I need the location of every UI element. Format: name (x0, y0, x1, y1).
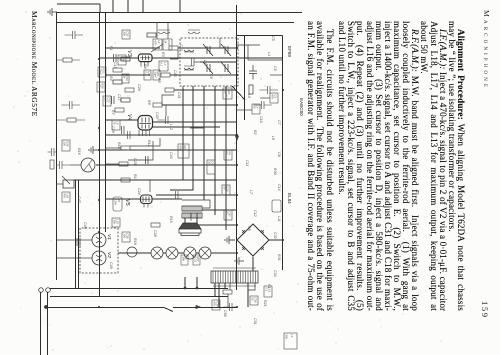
junction mains A (196, 287, 198, 289)
wire heater stub 2 (184, 277, 186, 288)
resistor R24 (113, 80, 122, 84)
resistor R2 (161, 73, 170, 77)
wire pot drop (57, 183, 63, 185)
wire heater links 2 (178, 252, 184, 254)
svg-text:C13: C13 (179, 44, 183, 51)
svg-text:0.1: 0.1 (264, 287, 268, 291)
wire V5 grid (149, 180, 151, 192)
wire branch x62 (200, 61, 237, 63)
svg-text:C20: C20 (137, 84, 141, 91)
svg-text:EF89: EF89 (287, 46, 292, 57)
valve V5 envelope (141, 195, 153, 204)
capacitor C8 (224, 303, 238, 311)
output transformer T2 primary (182, 206, 202, 211)
wire T2 primary top (182, 200, 210, 208)
svg-text:R13: R13 (133, 174, 137, 181)
svg-text:C49: C49 (109, 262, 113, 269)
wire gang top bus (244, 36, 246, 121)
capacitor C29 (77, 238, 80, 246)
wire branch x165 (96, 164, 237, 166)
mains terminal 1 (46, 288, 51, 293)
wire V3 to gang (151, 44, 163, 52)
svg-text:10pF: 10pF (153, 71, 157, 78)
label box C47 (62, 192, 70, 202)
wire det diode (165, 105, 167, 116)
valve V5 pins (144, 204, 148, 208)
wire mains lead 1 (47, 292, 49, 355)
wire V4 grid (190, 120, 204, 128)
svg-text:R4: R4 (109, 76, 113, 81)
wire branch x90 (174, 89, 237, 91)
resistor R9 (119, 162, 128, 166)
wire coupling low (106, 163, 119, 165)
heater lamp 3 (166, 247, 178, 259)
svg-text:R5: R5 (157, 78, 161, 83)
capacitor C28 (146, 156, 149, 164)
label box L8 (270, 93, 278, 103)
wire T1 secondary (247, 283, 249, 307)
label box C53 (223, 88, 232, 99)
wire V4 to V5 coupling (128, 141, 153, 160)
wire branch x48 low (106, 47, 160, 49)
wire osc coil link (162, 95, 174, 105)
wire T1 link A (224, 283, 226, 288)
wire top tie c (237, 44, 260, 46)
model caption (30, 11, 39, 211)
svg-text:33k: 33k (112, 219, 116, 224)
svg-text:50: 50 (250, 297, 254, 301)
resistor R1 (169, 46, 178, 50)
svg-text:C7: C7 (277, 120, 281, 126)
svg-text:V5: V5 (124, 199, 130, 207)
svg-text:C19: C19 (111, 126, 115, 133)
svg-text:R8: R8 (247, 226, 251, 231)
wire heater bus (80, 239, 92, 241)
wire branch x195 (156, 194, 237, 196)
coil L3 (158, 30, 170, 34)
label box C52 (122, 232, 130, 242)
coil L10 (184, 66, 194, 70)
label box L17 (159, 61, 168, 71)
wire L8 link (260, 97, 270, 99)
label box R14 (224, 150, 232, 160)
svg-text:0.01: 0.01 (193, 256, 197, 262)
wire bridge bottom (236, 239, 238, 241)
label box R16 (62, 140, 70, 151)
label box b2 (103, 96, 111, 106)
svg-text:C5: C5 (271, 36, 275, 41)
capacitor C7 (191, 213, 197, 221)
label box L18 top (284, 333, 297, 349)
svg-text:50: 50 (224, 151, 228, 155)
label box C46 (224, 210, 232, 220)
svg-text:L7: L7 (163, 62, 167, 66)
wire IFT tie 2 (156, 22, 158, 39)
label box C22 (144, 70, 151, 80)
capacitor C9 (57, 161, 71, 169)
junction dots top bus (282, 239, 284, 241)
label box pair a1 (98, 67, 106, 77)
wire V4 anode riser (153, 126, 221, 128)
wire mains lead 2 (40, 292, 42, 355)
bridge rectifier MR1 (237, 224, 269, 256)
wire bridge lower (229, 239, 235, 241)
wire left rail (57, 12, 303, 14)
svg-text:33k: 33k (207, 161, 211, 166)
lamp 1 cross (201, 249, 209, 257)
label box C16 (118, 55, 126, 65)
wire AGC rail (236, 5, 238, 290)
wire R29 drop (57, 119, 85, 121)
junction dots chassis rail (98, 58, 100, 60)
valve base dashed box (80, 228, 118, 273)
svg-text:R2: R2 (253, 130, 257, 135)
svg-text:EABC80: EABC80 (299, 98, 304, 116)
svg-text:R11: R11 (147, 140, 151, 146)
valve base B2 (92, 251, 106, 265)
wire heater column (211, 252, 237, 254)
svg-text:L1: L1 (267, 52, 271, 56)
wire top tie d (248, 45, 262, 60)
svg-text:50: 50 (222, 186, 226, 190)
svg-text:50: 50 (252, 105, 256, 109)
resistor R25 (121, 98, 130, 102)
svg-text:C43: C43 (155, 112, 159, 119)
svg-text:C14: C14 (277, 184, 281, 191)
capacitor C2 (254, 101, 273, 109)
lamp 4 cross (153, 249, 161, 257)
resistor R5 (125, 88, 134, 92)
svg-text:47k: 47k (97, 83, 101, 88)
wire edge rail low (57, 3, 100, 5)
T2 primary hatch (184, 206, 200, 211)
wire edge stub 4 (112, 0, 114, 12)
svg-text:50: 50 (112, 121, 116, 125)
wire edge stub 2 (142, 0, 144, 12)
resistor R11 (151, 223, 160, 227)
pilot lamp PL1 (127, 247, 137, 257)
svg-text:R1: R1 (109, 46, 113, 51)
label box b1 (122, 74, 129, 83)
wire mains lead A (50, 288, 228, 290)
wire mains lead B lower (50, 296, 172, 298)
svg-text:50: 50 (224, 211, 228, 215)
heater twin lead lower (75, 180, 77, 289)
label box PL1 (193, 255, 200, 265)
wire HT feed lower (47, 307, 164, 309)
resistor R28 (63, 58, 72, 62)
valve V5 electrodes (142, 197, 151, 203)
svg-text:100: 100 (62, 141, 66, 146)
resistor R3 (165, 88, 174, 92)
label box R19 (112, 218, 120, 227)
T1 core lines (213, 268, 256, 286)
capacitor C25 (114, 54, 117, 62)
wire bus drop (237, 35, 283, 37)
svg-text:R6: R6 (143, 64, 147, 69)
wire mains lead B upper (172, 296, 228, 298)
svg-text:47k: 47k (212, 301, 216, 306)
junction mains B (184, 287, 186, 289)
svg-text:C15: C15 (113, 62, 117, 69)
svg-text:R16: R16 (77, 148, 81, 155)
wire branch x210 (202, 209, 237, 211)
wire tie b (194, 61, 200, 63)
wire HT feed upper (173, 307, 237, 309)
svg-text:33k: 33k (181, 256, 185, 261)
label box C42 (207, 160, 215, 174)
junction dots rail y263 (236, 47, 238, 49)
ground left rail (48, 8, 57, 16)
svg-text:47k: 47k (153, 40, 157, 45)
svg-text:47k: 47k (178, 145, 182, 150)
svg-text:L4: L4 (203, 60, 207, 64)
wire branch x122 (153, 121, 238, 123)
svg-text:V1: V1 (106, 234, 112, 240)
valve V3 pins (141, 62, 148, 67)
svg-text:R4: R4 (117, 198, 121, 202)
lamp 3 cross (168, 249, 176, 257)
wire fuse link (227, 294, 229, 307)
svg-text:0.1: 0.1 (144, 71, 148, 75)
svg-text:C9: C9 (209, 74, 213, 79)
valve V4 pins (139, 130, 150, 136)
svg-text:R10: R10 (117, 142, 121, 149)
svg-text:33k: 33k (284, 334, 288, 339)
wire branch x75 low (106, 74, 150, 76)
resistor R8 (121, 146, 130, 150)
wire V3 cathode (100, 57, 139, 59)
svg-text:R27: R27 (227, 89, 231, 95)
resistor R6 (113, 68, 122, 72)
svg-text:2.2M: 2.2M (113, 197, 117, 205)
ground near bridge (225, 236, 235, 244)
svg-text:R18: R18 (133, 238, 137, 245)
valve base B1 (92, 233, 106, 247)
resistor R33 (50, 160, 54, 169)
label box PL2 (181, 255, 188, 265)
svg-text:C41: C41 (177, 92, 181, 99)
svg-text:V3: V3 (126, 50, 132, 57)
svg-text:C10: C10 (259, 116, 263, 123)
label box L14/C44 (153, 39, 162, 50)
resistor R27 (249, 85, 253, 94)
alignment procedure text block (306, 21, 465, 311)
wire branch x225 (197, 224, 237, 226)
svg-text:47k: 47k (62, 193, 66, 198)
capacitor C36 (65, 31, 84, 39)
svg-text:R21: R21 (263, 300, 267, 307)
wave switch S1 (81, 158, 95, 172)
output transformer T2 secondary (182, 213, 202, 218)
wire heater links (196, 252, 199, 254)
wire V4 cathode (106, 119, 139, 121)
label box L13/C40 (163, 39, 172, 50)
wire top bus (282, 36, 284, 271)
svg-text:C12: C12 (253, 210, 257, 217)
svg-text:C23: C23 (133, 158, 137, 165)
capacitor C26 (112, 96, 115, 104)
ground bridge-side (235, 257, 244, 265)
svg-text:100: 100 (118, 56, 122, 61)
svg-text:L4: L4 (290, 334, 294, 338)
resistor R29 (67, 118, 76, 122)
resistor R10 (121, 178, 130, 182)
base B2 heater (96, 255, 102, 261)
wire edge stub 3 (127, 0, 129, 12)
label box C21 (153, 70, 160, 80)
resistor R12 (223, 290, 232, 294)
label box R20 (112, 120, 120, 130)
svg-text:C47: C47 (77, 196, 81, 204)
label box mains rect (113, 197, 122, 211)
capacitor C5 (120, 131, 139, 139)
svg-text:C17: C17 (117, 94, 121, 102)
valve V4 envelope (138, 116, 153, 131)
HT switch lever (164, 308, 173, 312)
label box C50 (212, 300, 220, 310)
svg-text:L9: L9 (271, 136, 275, 140)
heater lamp 4 (151, 247, 163, 259)
wire heater links 4 (118, 252, 151, 254)
volume control R17 (63, 180, 74, 188)
svg-text:L6: L6 (247, 94, 251, 98)
wire screen resistor drop (106, 147, 121, 149)
label box R2 tag (122, 30, 130, 39)
wire grid link V3 (170, 50, 178, 59)
switch contacts (84, 160, 92, 170)
svg-text:R7: R7 (111, 110, 115, 116)
wire branch x180 (74, 179, 237, 181)
wire IFT tie (167, 22, 169, 39)
svg-text:L11: L11 (277, 216, 281, 222)
wire T1 primary tap (248, 283, 255, 290)
coil L2 (188, 30, 200, 34)
wire heater bus 2 (80, 257, 92, 259)
wire anode load (121, 179, 130, 181)
svg-text:C34: C34 (273, 270, 277, 277)
lamp 2 cross (186, 249, 194, 257)
svg-text:R10: R10 (167, 40, 171, 46)
capacitor C4 (158, 116, 169, 124)
wire V3 grid riser (152, 57, 283, 59)
svg-text:V2: V2 (106, 252, 112, 258)
capacitor C37 (62, 101, 81, 109)
running header MARCONIPHONE (482, 10, 491, 349)
label box metal rectifier tag (272, 200, 281, 212)
svg-text:100: 100 (122, 233, 126, 238)
svg-text:C24: C24 (137, 188, 141, 195)
svg-text:R3: R3 (161, 52, 165, 57)
wire branch x75 (170, 74, 237, 76)
resistor R7 (115, 108, 124, 112)
svg-text:R9: R9 (147, 100, 151, 105)
valve V3 envelope (138, 54, 152, 62)
trimmer C48 (203, 62, 213, 74)
coil L16 (184, 48, 194, 52)
wire gang bus 1 (225, 86, 227, 230)
svg-text:R15: R15 (169, 216, 173, 223)
svg-text:C40: C40 (173, 70, 177, 77)
wire diag link (232, 86, 245, 100)
wire lower bus (56, 13, 58, 281)
wire branch x150 (99, 149, 237, 151)
wire base box drop 2 (57, 257, 80, 259)
svg-text:10pF: 10pF (98, 68, 102, 75)
label box L5 (252, 104, 260, 114)
wire tie a (219, 38, 221, 48)
heater lamp 1 (199, 247, 211, 259)
trimmer C18 (221, 44, 231, 56)
label box pair a2 (97, 82, 105, 92)
wire bridge top (269, 239, 283, 241)
label box C39 (178, 144, 189, 158)
label box R22 (250, 296, 258, 305)
svg-text:L4: L4 (157, 40, 161, 44)
scan speckle field (292, 225, 295, 228)
wire T1 link B (214, 283, 216, 296)
wire edge rail link (99, 4, 101, 12)
T1 windings (213, 271, 256, 283)
wire heater stub 1 (196, 277, 198, 288)
svg-text:C11: C11 (245, 160, 249, 166)
wire top comp a (270, 74, 283, 76)
svg-text:47k: 47k (270, 94, 274, 99)
loudspeaker (179, 223, 201, 229)
page number 159 (480, 301, 490, 319)
svg-text:L12: L12 (169, 124, 173, 130)
speaker frame (179, 229, 201, 236)
svg-text:EL84: EL84 (287, 193, 292, 204)
svg-text:L7: L7 (249, 190, 253, 195)
svg-text:100: 100 (223, 89, 227, 94)
capacitor C6 (176, 191, 179, 199)
tuning gang dashed box (180, 38, 238, 86)
svg-text:C6: C6 (273, 66, 277, 71)
trimmer C31 (221, 62, 231, 74)
heater twin lead upper (78, 180, 80, 289)
wire gang bus 3 (203, 86, 205, 200)
wire V5 cathode (106, 198, 141, 200)
wire base box drop (57, 239, 80, 241)
label box C45 (222, 185, 230, 195)
capacitor C38 (48, 148, 57, 156)
wire branch x105 (162, 104, 237, 106)
wire gang bus 4 (170, 86, 193, 190)
heater lamp 2 (184, 247, 196, 259)
wire second left rail (57, 22, 295, 24)
svg-text:C32: C32 (273, 232, 277, 239)
wire R28 drop (57, 59, 80, 61)
svg-text:33k: 33k (122, 31, 126, 36)
valve V4 electrodes (140, 118, 152, 129)
resistor R26 (147, 33, 156, 37)
resistor R4 (153, 103, 162, 107)
svg-text:R30: R30 (273, 168, 277, 175)
svg-text:V4: V4 (126, 114, 132, 121)
HT feed terminal (45, 306, 48, 309)
label box T1 tags (264, 286, 272, 297)
bridge diode arms (242, 230, 264, 250)
wire V4 screen (130, 138, 160, 146)
svg-text:C48: C48 (83, 222, 87, 229)
svg-text:C8: C8 (277, 152, 281, 157)
mains terminal 2 (39, 288, 44, 293)
wire T1 lower tap (229, 283, 231, 290)
wire output tx to speaker (196, 218, 198, 223)
svg-text:100: 100 (103, 97, 107, 102)
arrow AGC (235, 136, 238, 140)
